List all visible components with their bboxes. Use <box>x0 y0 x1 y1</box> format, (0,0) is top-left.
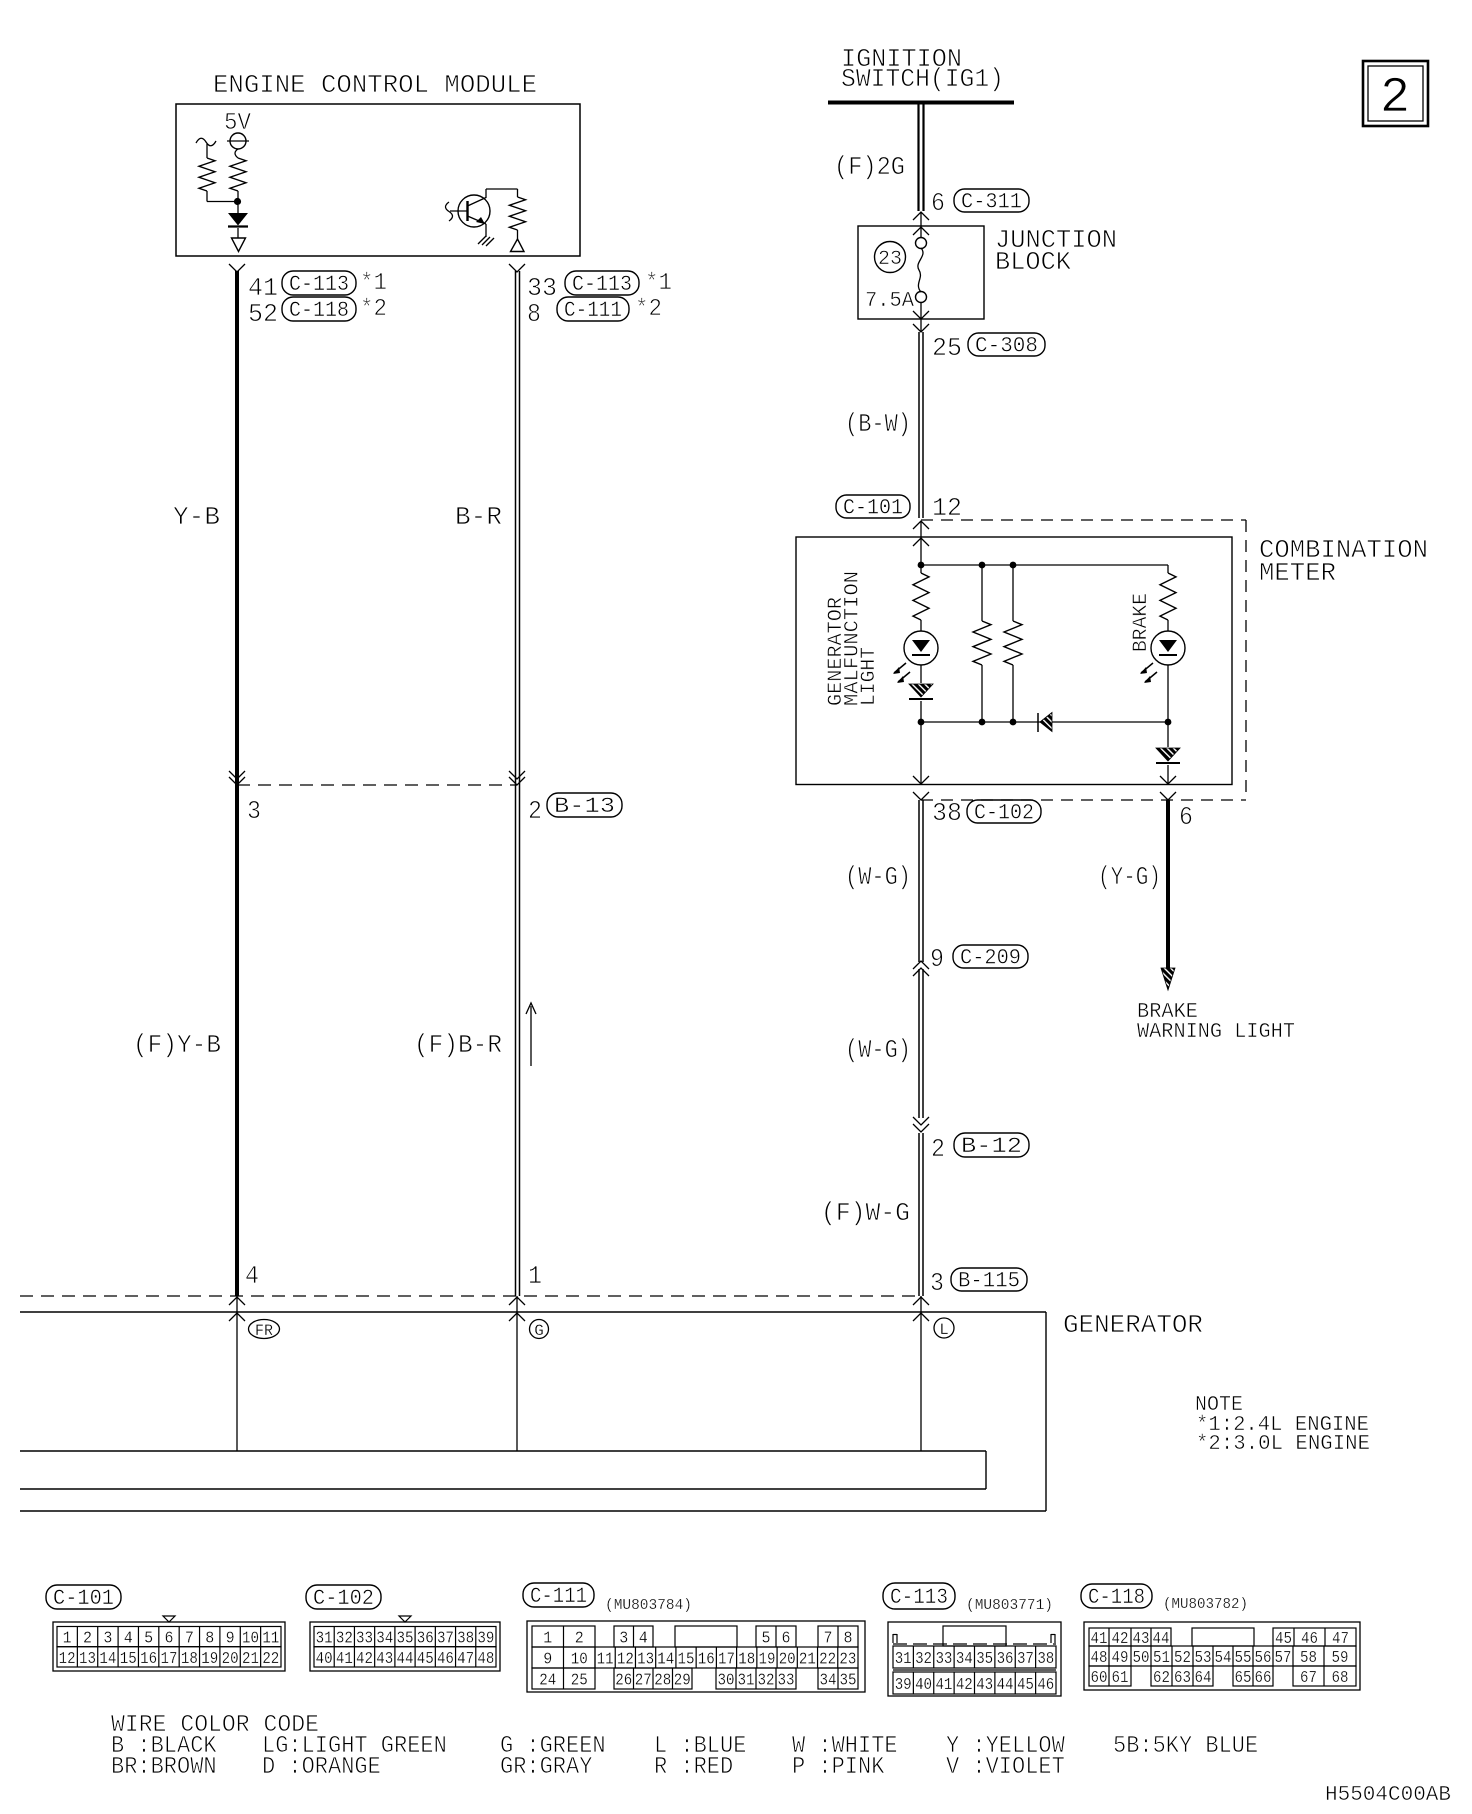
svg-text:C-113: C-113 <box>890 1585 948 1610</box>
svg-text:3: 3 <box>247 796 261 826</box>
svg-text:4: 4 <box>245 1261 259 1291</box>
combination meter box <box>796 537 1232 785</box>
generator inner band <box>20 1450 986 1452</box>
wire gen lamp exit <box>920 722 922 784</box>
connector B-13 dashed line <box>237 784 517 786</box>
resistor R7 (brake lamp) <box>1167 565 1169 573</box>
connector C-101 table <box>53 1622 285 1671</box>
svg-text:17: 17 <box>718 1651 735 1670</box>
svg-text:(F)B-R: (F)B-R <box>414 1030 502 1060</box>
terminal fork C-308 <box>913 324 929 332</box>
svg-text:35: 35 <box>976 1650 993 1669</box>
svg-text:(F)2G: (F)2G <box>834 152 905 182</box>
svg-text:9: 9 <box>226 1630 235 1649</box>
svg-text:C-102: C-102 <box>313 1586 374 1611</box>
svg-text:C-209: C-209 <box>960 946 1021 971</box>
svg-text:64: 64 <box>1195 1669 1212 1688</box>
svg-text:35: 35 <box>840 1672 857 1691</box>
wire (W-G) double line lower <box>918 969 920 1118</box>
harness dashed line <box>20 1295 921 1297</box>
svg-text:11: 11 <box>262 1630 279 1649</box>
wire Y-B (thick) ECM pin41 to B-13 <box>235 271 239 785</box>
terminal fork C-311 <box>913 212 929 220</box>
svg-text:68: 68 <box>1332 1669 1349 1688</box>
svg-text:42: 42 <box>356 1650 373 1669</box>
svg-text:7: 7 <box>185 1630 194 1649</box>
svg-text:8: 8 <box>527 299 541 329</box>
transistor Q1 base bar <box>466 201 468 221</box>
connector C-101 capsule label <box>46 1585 121 1609</box>
svg-text:8: 8 <box>844 1630 853 1649</box>
svg-text:7.5A: 7.5A <box>865 290 914 313</box>
wire (F)W-G double line <box>918 1133 920 1296</box>
fuse number circle 23 <box>875 242 906 273</box>
svg-text:SWITCH(IG1): SWITCH(IG1) <box>841 64 1004 94</box>
svg-text:32: 32 <box>336 1630 353 1649</box>
connector C-101 index triangle <box>163 1616 175 1622</box>
svg-text:C-118: C-118 <box>289 298 349 323</box>
svg-text:3: 3 <box>930 1268 944 1298</box>
svg-text:34: 34 <box>376 1630 393 1649</box>
svg-text:38: 38 <box>457 1630 474 1649</box>
svg-text:H5504C00AB: H5504C00AB <box>1325 1784 1451 1807</box>
terminal fork junction entry <box>913 227 929 235</box>
wire R1 bottom to junction <box>206 191 208 202</box>
svg-text:21: 21 <box>799 1651 816 1670</box>
terminal fork meter entry 1 <box>913 521 929 529</box>
diode D3 (left pointing on bus) <box>1037 713 1039 732</box>
svg-text:66: 66 <box>1255 1669 1272 1688</box>
svg-text:34: 34 <box>820 1672 837 1691</box>
svg-text:2: 2 <box>83 1630 92 1649</box>
svg-text:5: 5 <box>762 1630 771 1649</box>
connector C-111 capsule label <box>523 1583 594 1607</box>
LED generator malfunction light <box>920 620 922 631</box>
svg-text:41: 41 <box>935 1676 952 1695</box>
svg-text:63: 63 <box>1174 1669 1191 1688</box>
meter top bus <box>921 564 1168 566</box>
svg-text:35: 35 <box>397 1630 414 1649</box>
svg-text:B-12: B-12 <box>961 1134 1022 1159</box>
wire L inside generator <box>920 1296 922 1451</box>
svg-text:6: 6 <box>165 1630 174 1649</box>
svg-text:65: 65 <box>1235 1669 1252 1688</box>
svg-text:67: 67 <box>1300 1669 1317 1688</box>
svg-text:(F)W-G: (F)W-G <box>821 1198 910 1228</box>
svg-text:25: 25 <box>932 333 962 363</box>
svg-text:*2: *2 <box>360 296 387 323</box>
combination meter dashed outline <box>921 519 1246 521</box>
connector C-102 capsule label <box>306 1585 381 1609</box>
terminal fork meter exit right 1 <box>1160 776 1176 784</box>
svg-text:50: 50 <box>1133 1649 1150 1668</box>
svg-text:45: 45 <box>1017 1676 1034 1695</box>
terminal fork pin 33 <box>509 264 525 272</box>
svg-text:60: 60 <box>1091 1669 1108 1688</box>
svg-text:G: G <box>534 1322 544 1340</box>
svg-text:7: 7 <box>824 1630 833 1649</box>
svg-text:11: 11 <box>597 1651 614 1670</box>
svg-text:44: 44 <box>997 1676 1014 1695</box>
svg-text:C-101: C-101 <box>843 496 903 521</box>
svg-text:20: 20 <box>779 1651 796 1670</box>
wire brake LED to bus <box>1167 665 1169 722</box>
terminal fork meter exit left 1 <box>913 776 929 784</box>
svg-text:6: 6 <box>782 1630 791 1649</box>
terminal forks G entry <box>509 1297 525 1305</box>
svg-text:FR: FR <box>255 1322 273 1340</box>
svg-text:B-115: B-115 <box>958 1269 1020 1294</box>
svg-text:2: 2 <box>575 1630 584 1649</box>
svg-text:23: 23 <box>839 1651 856 1670</box>
svg-text:1: 1 <box>528 1261 542 1291</box>
resistor R2 (ECM pullup) <box>230 158 246 191</box>
resistor R3 (ECM right) <box>517 189 519 197</box>
svg-text:2: 2 <box>528 796 542 826</box>
svg-text:33: 33 <box>935 1650 952 1669</box>
svg-text:24: 24 <box>539 1672 556 1691</box>
svg-text:61: 61 <box>1112 1669 1129 1688</box>
svg-text:26: 26 <box>615 1672 632 1691</box>
svg-text:4: 4 <box>639 1630 648 1649</box>
connector C-118 capsule label <box>1081 1584 1152 1608</box>
svg-text:17: 17 <box>161 1650 178 1669</box>
svg-text:C-111: C-111 <box>564 298 622 323</box>
wire B-R (double) ECM pin33 to B-13 <box>515 271 517 785</box>
wire FR inside generator <box>236 1296 238 1451</box>
svg-text:32: 32 <box>915 1650 932 1669</box>
terminal fork junction exit <box>913 311 929 319</box>
LED brake light <box>1167 620 1169 631</box>
svg-text:*2: *2 <box>635 296 662 323</box>
svg-text:30: 30 <box>718 1672 735 1691</box>
svg-text:22: 22 <box>819 1651 836 1670</box>
resistor R5 (meter mid left) <box>981 565 983 621</box>
wire R2 to node <box>237 191 239 203</box>
connector C-118 table <box>1084 1622 1360 1690</box>
svg-text:METER: METER <box>1259 558 1336 588</box>
svg-text:53: 53 <box>1195 1649 1212 1668</box>
svg-text:*1: *1 <box>645 270 672 297</box>
svg-text:10: 10 <box>242 1630 259 1649</box>
svg-text:21: 21 <box>242 1650 259 1669</box>
connector C-113 capsule label <box>883 1583 955 1609</box>
svg-text:B-13: B-13 <box>554 794 615 819</box>
svg-text:19: 19 <box>201 1650 218 1669</box>
svg-text:12: 12 <box>932 493 962 523</box>
svg-text:14: 14 <box>99 1650 116 1669</box>
wire (F)2G double line <box>917 104 919 211</box>
svg-text:54: 54 <box>1215 1649 1232 1668</box>
connector C-101 capsule <box>836 495 910 518</box>
resistor R1 (ECM left) <box>199 158 215 191</box>
svg-text:Y-B: Y-B <box>173 502 220 532</box>
svg-text:16: 16 <box>698 1651 715 1670</box>
svg-text:16: 16 <box>140 1650 157 1669</box>
svg-text:D :ORANGE: D :ORANGE <box>262 1754 381 1781</box>
svg-text:V :VIOLET: V :VIOLET <box>946 1754 1065 1781</box>
svg-text:(MU803784): (MU803784) <box>605 1597 692 1614</box>
svg-text:C-118: C-118 <box>1088 1585 1145 1610</box>
svg-text:5B:5KY BLUE: 5B:5KY BLUE <box>1113 1733 1258 1760</box>
diode D4 (hatched, down) <box>1167 722 1169 747</box>
svg-text:43: 43 <box>976 1676 993 1695</box>
terminal FR <box>249 1320 280 1339</box>
svg-text:13: 13 <box>79 1650 96 1669</box>
ignition switch bus bar <box>828 101 1014 105</box>
terminal fork meter entry 2 <box>913 538 929 546</box>
svg-text:40: 40 <box>915 1676 932 1695</box>
wire (W-G) double line upper <box>918 800 920 962</box>
internal connection squiggle left <box>196 138 216 146</box>
svg-text:38: 38 <box>1037 1650 1054 1669</box>
svg-text:33: 33 <box>356 1630 373 1649</box>
svg-text:9: 9 <box>930 944 944 974</box>
engine control module box U1 <box>176 104 580 256</box>
open arrowhead to pin 41 <box>232 238 246 252</box>
svg-text:*1: *1 <box>360 270 387 297</box>
svg-text:1: 1 <box>543 1630 552 1649</box>
svg-text:12: 12 <box>617 1651 634 1670</box>
svg-text:B-R: B-R <box>455 502 502 532</box>
svg-text:BR:BROWN: BR:BROWN <box>111 1754 217 1781</box>
svg-text:ENGINE CONTROL MODULE: ENGINE CONTROL MODULE <box>213 70 537 100</box>
svg-text:3: 3 <box>619 1630 628 1649</box>
svg-text:10: 10 <box>571 1651 588 1670</box>
current direction arrow <box>530 1006 532 1066</box>
node dot top bus a <box>918 562 925 569</box>
wire meter entry <box>920 521 922 565</box>
svg-text:48: 48 <box>1091 1649 1108 1668</box>
svg-text:47: 47 <box>457 1650 474 1669</box>
svg-text:52: 52 <box>248 299 278 329</box>
svg-text:36: 36 <box>417 1630 434 1649</box>
svg-text:5: 5 <box>144 1630 153 1649</box>
terminal forks FR entry <box>229 1297 245 1305</box>
terminal fork pin 41 <box>229 264 245 272</box>
svg-text:29: 29 <box>674 1672 691 1691</box>
svg-text:25: 25 <box>571 1672 588 1691</box>
svg-text:40: 40 <box>316 1650 333 1669</box>
svg-text:8: 8 <box>205 1630 214 1649</box>
svg-text:45: 45 <box>417 1650 434 1669</box>
svg-text:62: 62 <box>1153 1669 1170 1688</box>
svg-text:56: 56 <box>1255 1649 1272 1668</box>
svg-text:C-113: C-113 <box>289 272 349 297</box>
svg-text:34: 34 <box>956 1650 973 1669</box>
svg-text:42: 42 <box>956 1676 973 1695</box>
svg-text:28: 28 <box>654 1672 671 1691</box>
open arrowhead to pin 33 (apex up) <box>511 239 525 252</box>
zener diode D1 (filled, down) <box>228 213 248 226</box>
svg-text:1: 1 <box>63 1630 72 1649</box>
svg-text:13: 13 <box>637 1651 654 1670</box>
resistor R6 (meter mid right) <box>1012 565 1014 621</box>
terminal forks B-13 pin3 <box>229 771 245 779</box>
svg-text:6: 6 <box>931 188 945 218</box>
svg-text:GR:GRAY: GR:GRAY <box>500 1754 592 1781</box>
svg-text:51: 51 <box>1153 1649 1170 1668</box>
page number box <box>1363 61 1428 126</box>
meter bottom bus <box>921 721 1168 723</box>
svg-text:(F)Y-B: (F)Y-B <box>133 1030 221 1060</box>
junction block box <box>858 226 984 319</box>
svg-text:38: 38 <box>932 798 962 828</box>
wire (F)Y-B (thick) to generator <box>235 785 239 1296</box>
svg-text:44: 44 <box>397 1650 414 1669</box>
svg-text:15: 15 <box>120 1650 137 1669</box>
svg-text:33: 33 <box>778 1672 795 1691</box>
node dot bottom bus c <box>1010 719 1017 726</box>
svg-text:2: 2 <box>931 1134 945 1164</box>
svg-text:(MU803771): (MU803771) <box>966 1597 1053 1614</box>
svg-text:4: 4 <box>124 1630 133 1649</box>
transistor Q1 emitter <box>468 216 487 224</box>
ground (ECM emitter) <box>478 236 486 244</box>
resistor R4 (gen lamp) <box>920 565 922 573</box>
svg-text:14: 14 <box>657 1651 674 1670</box>
svg-text:39: 39 <box>477 1630 494 1649</box>
svg-text:C-113: C-113 <box>572 272 632 297</box>
wire (F)B-R (double) to generator <box>515 785 517 1296</box>
svg-text:C-311: C-311 <box>961 190 1022 215</box>
svg-text:37: 37 <box>437 1630 454 1649</box>
connector C-111 table <box>527 1621 865 1692</box>
svg-text:52: 52 <box>1174 1649 1191 1668</box>
svg-text:20: 20 <box>222 1650 239 1669</box>
svg-text:WARNING LIGHT: WARNING LIGHT <box>1137 1021 1295 1044</box>
svg-text:49: 49 <box>1112 1649 1129 1668</box>
svg-text:31: 31 <box>738 1672 755 1691</box>
svg-text:22: 22 <box>262 1650 279 1669</box>
svg-text:27: 27 <box>635 1672 652 1691</box>
fuse F23 7.5A <box>916 238 927 249</box>
svg-text:43: 43 <box>376 1650 393 1669</box>
terminal forks B-13 pin2 <box>509 771 525 779</box>
svg-text:C-111: C-111 <box>530 1584 587 1609</box>
svg-text:41: 41 <box>336 1650 353 1669</box>
svg-text:15: 15 <box>678 1651 695 1670</box>
svg-text:(B-W): (B-W) <box>845 409 911 439</box>
terminal forks C-209 <box>913 961 929 969</box>
svg-text:C-101: C-101 <box>53 1586 114 1611</box>
svg-text:46: 46 <box>437 1650 454 1669</box>
generator box bottom <box>20 1510 1046 1512</box>
node dot top bus b <box>979 562 986 569</box>
svg-text:C-102: C-102 <box>974 801 1034 826</box>
generator box right <box>1045 1312 1047 1511</box>
connector C-102 index triangle <box>399 1616 411 1622</box>
generator box top <box>20 1311 1046 1313</box>
transistor Q1 collector <box>468 198 487 207</box>
5V supply circle <box>230 133 246 149</box>
node dot bottom bus b <box>979 719 986 726</box>
svg-text:46: 46 <box>1037 1676 1054 1695</box>
brake warning light arrowhead <box>1161 968 1175 990</box>
svg-text:2: 2 <box>1380 70 1410 127</box>
svg-text:23: 23 <box>878 248 902 271</box>
svg-text:GENERATOR: GENERATOR <box>1063 1310 1203 1340</box>
svg-text:*2:3.0L ENGINE: *2:3.0L ENGINE <box>1196 1433 1370 1456</box>
connector C-102 table <box>310 1622 500 1671</box>
svg-text:6: 6 <box>1179 802 1193 832</box>
terminal fork meter exit left 2 <box>913 792 929 800</box>
svg-text:36: 36 <box>997 1650 1014 1669</box>
wire fuse to exit <box>920 303 922 331</box>
terminal forks L entry <box>913 1297 929 1305</box>
svg-text:L: L <box>939 1321 949 1339</box>
svg-text:55: 55 <box>1235 1649 1252 1668</box>
terminal G <box>530 1320 549 1339</box>
svg-text:(Y-G): (Y-G) <box>1098 862 1161 892</box>
svg-text:18: 18 <box>181 1650 198 1669</box>
svg-text:(W-G): (W-G) <box>845 862 911 892</box>
svg-text:R :RED: R :RED <box>654 1754 733 1781</box>
svg-text:BLOCK: BLOCK <box>995 247 1071 277</box>
wire (B-W) double line <box>918 332 920 518</box>
svg-text:LIGHT: LIGHT <box>858 647 881 706</box>
svg-text:(MU803782): (MU803782) <box>1163 1596 1248 1613</box>
svg-text:19: 19 <box>758 1651 775 1670</box>
svg-text:18: 18 <box>738 1651 755 1670</box>
svg-text:57: 57 <box>1275 1649 1292 1668</box>
svg-text:37: 37 <box>1017 1650 1034 1669</box>
svg-text:12: 12 <box>59 1650 76 1669</box>
terminal L <box>934 1318 954 1338</box>
wire G inside generator <box>516 1296 518 1451</box>
svg-text:BRAKE: BRAKE <box>1130 593 1153 652</box>
diode D2 (hatched, down) <box>920 665 922 683</box>
svg-text:(W-G): (W-G) <box>845 1035 911 1065</box>
connector C-113 table <box>888 1622 1061 1696</box>
wire (Y-G) thick brake <box>1166 800 1170 972</box>
node dot bottom bus a <box>918 719 925 726</box>
svg-text:P :PINK: P :PINK <box>792 1754 885 1781</box>
svg-text:48: 48 <box>477 1650 494 1669</box>
terminal forks B-12 <box>913 1117 929 1125</box>
svg-text:39: 39 <box>895 1676 912 1695</box>
svg-text:31: 31 <box>895 1650 912 1669</box>
node dot bottom bus d <box>1165 719 1172 726</box>
transistor Q1 circle <box>458 195 490 227</box>
wire into fuse <box>920 212 922 238</box>
svg-text:32: 32 <box>758 1672 775 1691</box>
node dot top bus c <box>1010 562 1017 569</box>
svg-text:59: 59 <box>1332 1649 1349 1668</box>
svg-text:58: 58 <box>1300 1649 1317 1668</box>
svg-text:C-308: C-308 <box>975 334 1038 359</box>
transistor Q1 base lead + squiggle <box>450 210 468 212</box>
wire 5V circle to resistor <box>235 149 238 158</box>
terminal fork meter exit right 2 <box>1160 792 1176 800</box>
svg-text:9: 9 <box>543 1651 552 1670</box>
svg-text:3: 3 <box>103 1630 112 1649</box>
svg-text:31: 31 <box>316 1630 333 1649</box>
node junction dot ECM <box>234 198 241 205</box>
